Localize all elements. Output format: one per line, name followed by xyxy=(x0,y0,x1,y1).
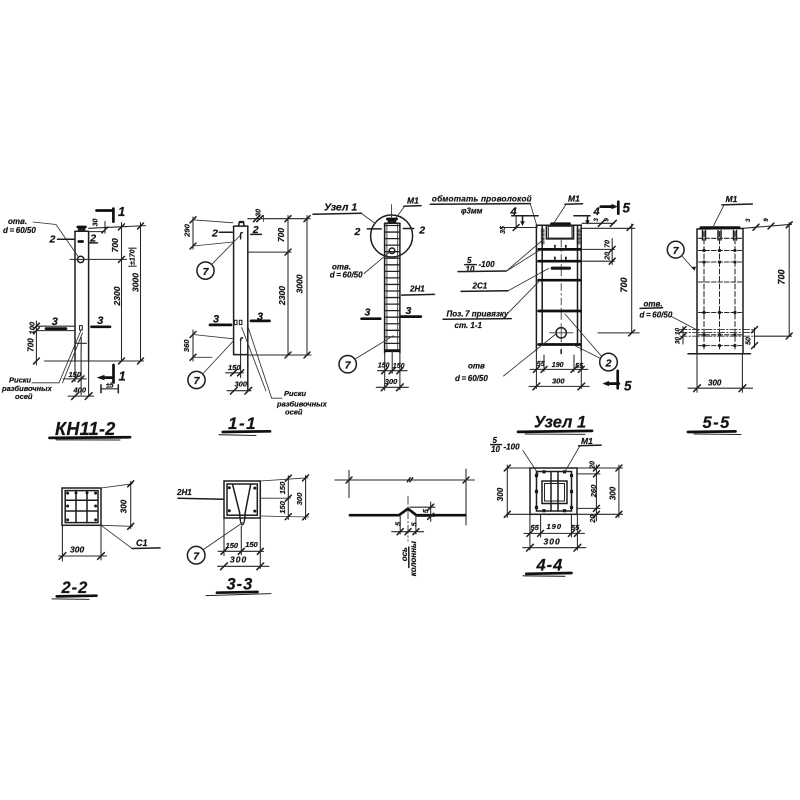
svg-text:Риски: Риски xyxy=(284,389,307,398)
svg-text:М1: М1 xyxy=(581,436,593,446)
section mark 5 top xyxy=(601,205,612,208)
view section 1-1 xyxy=(182,209,328,436)
dim 360 left xyxy=(192,330,194,361)
svg-text:d = 60/50: d = 60/50 xyxy=(455,374,488,383)
svg-text:5: 5 xyxy=(396,522,403,526)
stirrup ties xyxy=(385,225,399,227)
svg-text:30: 30 xyxy=(675,337,682,345)
view section 2-2 xyxy=(52,481,160,600)
svg-text:700: 700 xyxy=(276,228,286,242)
view section 5-5 xyxy=(640,194,793,435)
stirrup square xyxy=(65,491,98,523)
label C1 xyxy=(101,525,132,548)
svg-text:2: 2 xyxy=(354,226,361,238)
pos 7 bubble xyxy=(339,356,356,373)
svg-text:2Н1: 2Н1 xyxy=(409,285,425,294)
svg-text:-100: -100 xyxy=(479,260,496,269)
dim 5 right xyxy=(410,506,435,508)
svg-text:2: 2 xyxy=(605,357,612,369)
svg-text:300: 300 xyxy=(608,486,617,500)
pos 7 bubble bottom xyxy=(188,371,205,388)
svg-text:1-1: 1-1 xyxy=(228,414,257,433)
pos 2 bubble xyxy=(600,353,618,371)
bottom dims xyxy=(223,518,225,556)
svg-text:обмотать проволокой: обмотать проволокой xyxy=(432,194,532,204)
svg-text:4-4: 4-4 xyxy=(536,557,564,575)
svg-text:70: 70 xyxy=(604,240,611,248)
svg-text:4: 4 xyxy=(593,206,600,218)
surface profile with bump xyxy=(350,509,465,516)
section mark 1 top xyxy=(97,209,113,212)
stirrups xyxy=(539,248,581,251)
svg-text:10: 10 xyxy=(466,265,475,274)
M1 plate xyxy=(701,226,739,229)
svg-text:Узел 1: Узел 1 xyxy=(534,414,586,432)
rebar top hooks xyxy=(702,231,704,241)
extension line at hole level xyxy=(70,258,127,260)
svg-text:-100: -100 xyxy=(504,443,521,452)
view riska profile detail xyxy=(335,469,475,576)
dim 35 xyxy=(515,216,517,229)
svg-text:3000: 3000 xyxy=(295,274,305,293)
rebar dots xyxy=(228,486,231,489)
svg-text:30: 30 xyxy=(256,209,263,217)
stirrup square xyxy=(227,484,257,515)
svg-text:5: 5 xyxy=(623,201,631,216)
svg-text:5: 5 xyxy=(412,522,419,526)
bar 2C1 xyxy=(552,267,569,270)
axis cross xyxy=(80,338,82,350)
svg-text:150: 150 xyxy=(69,370,82,379)
wire wrap serration right xyxy=(577,228,580,230)
right dims 150 150 300 xyxy=(260,478,308,481)
dim 700 xyxy=(631,224,633,333)
section mark 1 bottom xyxy=(112,365,115,383)
svg-text:ст. 1-1: ст. 1-1 xyxy=(455,321,483,330)
svg-text:5: 5 xyxy=(624,379,632,394)
cage bottom band xyxy=(386,349,399,352)
tenon dark block xyxy=(388,219,397,223)
svg-text:φ3мм: φ3мм xyxy=(461,207,483,216)
top dim line xyxy=(335,479,475,481)
svg-text:300: 300 xyxy=(708,379,722,388)
pos 7 bubble top xyxy=(197,262,214,279)
svg-text:Поз. 7 привязку: Поз. 7 привязку xyxy=(447,310,510,319)
svg-text:5: 5 xyxy=(423,509,430,513)
riska square mark xyxy=(80,326,83,330)
left dims 100 / 700 xyxy=(36,325,74,327)
svg-text:300: 300 xyxy=(230,555,247,565)
svg-text:2300: 2300 xyxy=(277,286,287,306)
svg-text:5: 5 xyxy=(467,256,472,265)
svg-text:150: 150 xyxy=(278,481,287,494)
left dim 300 xyxy=(507,467,530,469)
dim 30 top right xyxy=(248,218,310,220)
bolt marks xyxy=(535,474,538,477)
svg-text:300: 300 xyxy=(70,545,84,555)
wire wrap serration left xyxy=(541,228,544,230)
svg-text:700: 700 xyxy=(777,269,787,284)
stirrup rows dashed xyxy=(699,237,742,239)
svg-text:300: 300 xyxy=(544,537,561,547)
hidden rebar dashed xyxy=(703,232,705,351)
svg-text:300: 300 xyxy=(120,499,129,513)
rebar verticals xyxy=(541,225,543,344)
dims 5 5 bottom xyxy=(399,517,401,535)
bottom extensions xyxy=(535,351,537,389)
bottom extension lines xyxy=(74,361,76,382)
svg-text:отв.: отв. xyxy=(8,217,27,226)
riska squares xyxy=(234,320,237,324)
section mark 5 bottom xyxy=(616,371,619,389)
svg-text:290: 290 xyxy=(182,223,191,237)
rebar pos7 bottom line xyxy=(240,340,242,378)
svg-text:КН11-2: КН11-2 xyxy=(55,419,116,439)
dim 700 xyxy=(788,223,790,337)
column body xyxy=(74,231,76,361)
svg-text:3: 3 xyxy=(97,315,103,327)
hole rows dash-dot xyxy=(680,329,755,331)
svg-text:М1: М1 xyxy=(568,194,580,204)
right dims 20 260 20 xyxy=(577,467,623,469)
hole otv xyxy=(556,328,566,338)
svg-text:400: 400 xyxy=(73,386,87,395)
svg-text:20: 20 xyxy=(590,461,597,470)
svg-text:2Н1: 2Н1 xyxy=(176,488,192,497)
view section 4-4 xyxy=(491,436,623,576)
rebar verticals xyxy=(386,223,388,350)
bottom center tick xyxy=(560,350,562,354)
svg-text:190: 190 xyxy=(547,522,563,531)
svg-text:300: 300 xyxy=(295,492,304,505)
top extension xyxy=(743,224,792,228)
grid bars xyxy=(75,491,77,523)
svg-text:С1: С1 xyxy=(136,538,148,548)
tenon on column top xyxy=(78,228,86,232)
tolerance +-5 xyxy=(101,388,118,390)
dim line 3000 xyxy=(140,223,142,362)
svg-text:100: 100 xyxy=(27,321,36,334)
svg-text:300: 300 xyxy=(552,377,565,386)
svg-text:360: 360 xyxy=(182,339,191,352)
hole otv xyxy=(389,248,395,254)
svg-text:d = 60/50: d = 60/50 xyxy=(330,271,363,280)
svg-text:3: 3 xyxy=(52,316,58,328)
extensions xyxy=(348,470,350,497)
left small dims 10 30 xyxy=(682,327,684,345)
svg-text:5: 5 xyxy=(493,436,498,445)
pos 7 bubble xyxy=(187,546,205,564)
center axis xyxy=(560,240,562,322)
bolt marks xyxy=(703,249,706,252)
tenon top xyxy=(239,222,245,226)
svg-text:5-5: 5-5 xyxy=(703,414,731,432)
right dim 300 xyxy=(101,484,133,488)
svg-text:Узел 1: Узел 1 xyxy=(324,202,357,214)
embed mark dash xyxy=(79,240,83,243)
column side outline xyxy=(233,226,235,355)
svg-text:50: 50 xyxy=(746,337,753,345)
column edges xyxy=(535,225,537,351)
svg-text:колонны: колонны xyxy=(409,541,418,576)
svg-text:±170: ±170 xyxy=(129,249,136,265)
svg-text:10: 10 xyxy=(675,328,682,336)
bottom dim 300 xyxy=(61,525,63,561)
riski leaders xyxy=(242,328,266,392)
svg-text:2300: 2300 xyxy=(112,286,122,306)
center axis xyxy=(407,496,409,541)
svg-text:М1: М1 xyxy=(726,194,738,204)
svg-text:300: 300 xyxy=(496,487,505,501)
svg-text:осей: осей xyxy=(285,408,303,417)
svg-text:2-2: 2-2 xyxy=(61,579,89,597)
svg-text:3: 3 xyxy=(406,305,412,317)
svg-text:d = 60/50: d = 60/50 xyxy=(3,226,36,235)
view section 3-3 xyxy=(176,475,309,596)
svg-text:ось: ось xyxy=(400,547,409,561)
svg-text:3000: 3000 xyxy=(131,273,141,292)
svg-text:20: 20 xyxy=(590,515,597,524)
svg-text:150: 150 xyxy=(245,540,258,549)
svg-text:2: 2 xyxy=(418,225,425,237)
dim 300 bottom xyxy=(696,354,698,393)
right small dim 50 xyxy=(754,328,756,348)
svg-text:700: 700 xyxy=(27,338,36,352)
ground line xyxy=(45,360,144,362)
svg-text:1: 1 xyxy=(118,204,125,219)
center axis above xyxy=(391,205,393,219)
column outline xyxy=(384,223,386,353)
svg-text:2С1: 2С1 xyxy=(472,282,488,291)
top extension small dims xyxy=(582,222,614,224)
svg-text:20: 20 xyxy=(604,252,611,261)
right dims 70 20 xyxy=(581,248,614,250)
bottom extensions xyxy=(384,353,386,390)
svg-text:±5: ±5 xyxy=(106,383,114,390)
stirrup square xyxy=(537,472,572,512)
svg-text:отв: отв xyxy=(468,362,485,371)
svg-text:55: 55 xyxy=(571,523,580,532)
stirrup hooks xyxy=(554,246,556,249)
svg-text:1: 1 xyxy=(119,369,126,384)
svg-text:2: 2 xyxy=(49,234,56,246)
svg-text:3: 3 xyxy=(365,307,371,319)
tenon former double box xyxy=(542,481,567,504)
dim line 700/2300 xyxy=(121,223,123,362)
dim 290 left xyxy=(192,217,194,249)
outer right dim 300 xyxy=(618,465,620,518)
svg-text:260: 260 xyxy=(589,484,598,498)
dim 30 top xyxy=(89,226,146,229)
svg-text:150: 150 xyxy=(228,363,241,372)
view column with node circle xyxy=(313,196,435,391)
svg-text:М1: М1 xyxy=(407,196,419,206)
view node detail Uzel 1 xyxy=(430,194,639,435)
tenon box xyxy=(546,225,573,239)
svg-text:190: 190 xyxy=(552,362,564,369)
outer square xyxy=(530,468,577,514)
svg-text:d = 60/50: d = 60/50 xyxy=(640,311,673,320)
bottom dims 55 190 55 xyxy=(529,514,531,550)
right dim lines 700 2300 3000 xyxy=(248,251,291,253)
column outline xyxy=(696,229,698,354)
rebar dots xyxy=(66,492,69,495)
pos 7 bubble xyxy=(667,241,684,258)
svg-text:30: 30 xyxy=(92,219,99,227)
svg-text:700: 700 xyxy=(619,277,629,292)
node circle xyxy=(371,215,413,257)
svg-text:2: 2 xyxy=(211,228,218,240)
hole otv xyxy=(78,256,84,262)
svg-text:150: 150 xyxy=(278,500,287,513)
M1 plate top xyxy=(552,222,570,225)
outer square xyxy=(62,488,101,525)
rebar pos7 hook top xyxy=(241,233,243,239)
svg-text:700: 700 xyxy=(110,238,120,252)
outer square xyxy=(224,481,260,518)
dim +-170 boxed xyxy=(129,247,136,249)
view KN11-2 elevation xyxy=(1,204,146,440)
svg-text:10: 10 xyxy=(491,445,500,454)
lifting loop V xyxy=(233,485,251,525)
bars 2C1 vertical xyxy=(550,472,552,512)
svg-text:осей: осей xyxy=(15,392,33,401)
